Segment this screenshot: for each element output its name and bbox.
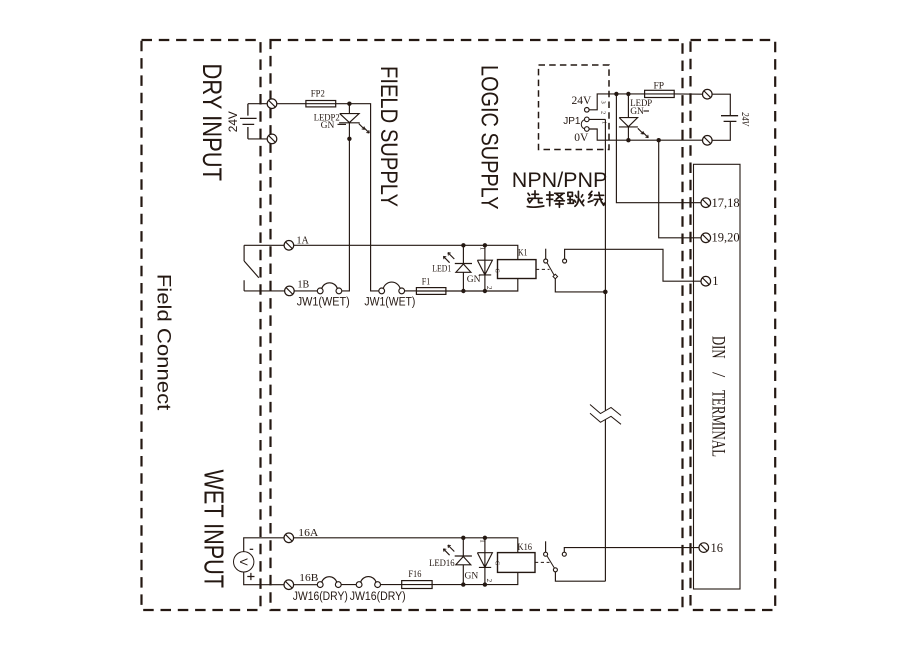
wire: contact to terminal 1 (565, 249, 701, 281)
svg-text:24V: 24V (572, 95, 593, 107)
wire: 0V line to terminal 19,20 (659, 140, 701, 238)
LED LED16 (455, 538, 472, 585)
DIN terminal block box (694, 164, 741, 589)
node: LED1 junctions (461, 243, 465, 247)
protection diode D16 (477, 538, 492, 585)
relay contact K1 (545, 249, 547, 259)
wire: cap to lower terminal (712, 121, 730, 140)
switch dry input (244, 245, 259, 291)
hanzi xian (588, 191, 605, 205)
node: dry minus junction (347, 137, 351, 141)
svg-text:F1: F1 (422, 278, 431, 288)
terminal screw top-left lower (267, 134, 277, 144)
wire: LEDP2 cathode down to JW1 row (342, 123, 350, 291)
terminal screw 1 (701, 276, 711, 286)
terminal screw logic supply upper (703, 89, 713, 99)
LED LED1 (455, 245, 472, 291)
svg-text:3: 3 (600, 101, 607, 104)
svg-text:WET INPUT: WET INPUT (199, 470, 230, 589)
fuse F16 (402, 581, 432, 589)
svg-text:TERMINAL: TERMINAL (707, 390, 728, 457)
svg-text:DIN: DIN (707, 336, 728, 359)
voltage source wet input (244, 538, 284, 585)
svg-text:NPN/PNP: NPN/PNP (512, 168, 608, 192)
svg-text:JW16(DRY): JW16(DRY) (350, 589, 406, 603)
svg-text:F16: F16 (408, 570, 421, 580)
jumper JW16 first (317, 582, 341, 588)
terminal screw 16A (284, 533, 294, 543)
wire: 16A row (294, 538, 518, 553)
jumper JW1 first (317, 288, 341, 294)
jumper header JP1 pins (585, 108, 590, 132)
battery 24V logic (721, 116, 738, 122)
wire: 1B row left (244, 290, 317, 292)
wire: 24V line to terminal 17,18 (616, 94, 701, 203)
battery 24V dry input (240, 104, 257, 139)
terminal screw top-left upper (267, 99, 277, 109)
svg-text:GN: GN (321, 121, 335, 131)
fuse FP2 (306, 101, 336, 107)
wire: terminal to cap 24V (712, 94, 730, 116)
svg-text:1: 1 (601, 121, 608, 124)
hanzi ze (547, 192, 565, 208)
LED LEDP2 (339, 104, 360, 123)
LEDP emission arrows (638, 128, 649, 137)
terminal screw 17,18 (701, 198, 711, 208)
svg-text:1: 1 (479, 539, 487, 543)
node: 24V line junctions (614, 92, 618, 96)
svg-text:1B: 1B (298, 279, 310, 290)
jumper JW16 second (356, 582, 380, 588)
LEDP2 emission arrows (359, 124, 370, 133)
jumper JW1 second (379, 288, 405, 294)
wire: JP1 pin3 to 24V line (589, 94, 645, 110)
svg-text:DRY INPUT: DRY INPUT (197, 64, 227, 182)
terminal screw 1B (285, 286, 295, 296)
svg-text:24V: 24V (739, 112, 750, 127)
svg-text:GN: GN (465, 572, 479, 582)
svg-text:1: 1 (712, 274, 718, 288)
wire: JP1 pin1 to 0V line (589, 129, 702, 140)
relay coil K16 (498, 553, 536, 573)
svg-text:2: 2 (600, 111, 607, 114)
relay coil K1 (498, 260, 537, 279)
wire: 16B to jumper (294, 584, 318, 586)
hanzi tiao (568, 191, 584, 206)
svg-text:16: 16 (711, 541, 724, 555)
svg-text:GN: GN (630, 107, 644, 117)
wire: F1 to K1 bottom stub (446, 279, 518, 292)
svg-text:FP: FP (654, 82, 665, 92)
svg-text:G: G (494, 269, 500, 274)
LED1 emission arrows (443, 253, 454, 263)
svg-text:Field Connect: Field Connect (152, 274, 174, 411)
svg-text:LED16: LED16 (429, 559, 455, 569)
plus mark (247, 573, 254, 580)
node: LEDP2 anode junction (347, 102, 351, 106)
frame: right terminal dashed border (691, 40, 776, 610)
relay contact K16 (545, 541, 547, 552)
svg-text:2: 2 (485, 579, 493, 583)
label leader GN right (644, 110, 650, 112)
logic rail vertical upper (604, 119, 606, 410)
node: rail junction K1 (603, 290, 608, 295)
svg-text:16B: 16B (299, 573, 318, 584)
svg-text:1: 1 (479, 247, 487, 251)
wire: FP2 to corner, down to JW1 row (336, 104, 379, 291)
wire: jumpers to F16 (341, 584, 402, 586)
relay contact K16 output (562, 552, 566, 556)
wire: contact to logic rail bottom (555, 572, 605, 581)
wire: contact to logic rail (555, 279, 605, 292)
svg-text:GN: GN (467, 275, 481, 285)
LED16 emission arrows (443, 545, 454, 555)
wire: dry - to terminal (248, 138, 267, 140)
protection diode D1 (477, 245, 492, 291)
svg-text:LOGIC SUPPLY: LOGIC SUPPLY (475, 65, 502, 210)
label leader GN left (338, 123, 347, 125)
fuse FP (645, 90, 675, 97)
svg-text:K1: K1 (518, 249, 528, 259)
svg-text:2: 2 (485, 286, 493, 290)
node: 0V line junctions (626, 138, 630, 142)
minus mark (250, 548, 254, 550)
terminal screw 16 (699, 543, 709, 553)
wire: 1A row (244, 245, 518, 259)
wire: dry + to terminal (248, 103, 267, 105)
LED LEDP (619, 94, 638, 140)
node: LED16 junctions (461, 536, 465, 540)
svg-text:24V: 24V (228, 111, 240, 132)
svg-text:G: G (494, 561, 500, 566)
wire: JP1 pin2 to logic rail (589, 118, 605, 120)
dashed actuator link K1 (536, 268, 550, 270)
svg-text:LED1: LED1 (432, 264, 451, 274)
svg-text:JW1(WET): JW1(WET) (364, 295, 415, 309)
terminal screw 19,20 (701, 233, 711, 243)
svg-text:1A: 1A (297, 235, 310, 246)
wire: F16 to K16 bottom stub (432, 572, 518, 584)
svg-text:FP2: FP2 (311, 90, 325, 100)
svg-text:V: V (237, 558, 249, 566)
label: chinese select jumper text (527, 191, 605, 208)
circuit break squiggles (590, 405, 621, 425)
wire: terminal to FP2 (277, 103, 306, 105)
wire: jumper2 to F1 (405, 290, 417, 292)
wire: contact to terminal 16 (564, 548, 699, 553)
terminal screw logic supply lower (703, 136, 713, 146)
svg-text:JW16(DRY): JW16(DRY) (293, 589, 348, 603)
frame: middle supply dashed border (271, 40, 683, 610)
jumper select dashed box JP1 (539, 65, 610, 150)
fuse F1 (416, 288, 446, 295)
terminal screw 1A (284, 241, 294, 251)
hanzi xuan (527, 191, 544, 207)
svg-text:JW1(WET): JW1(WET) (297, 295, 350, 309)
wire: FP to terminal (674, 93, 702, 95)
svg-text:K16: K16 (518, 543, 533, 553)
svg-text:/: / (707, 372, 728, 378)
terminal screw 16B (284, 580, 294, 590)
svg-text:FIELD SUPPLY: FIELD SUPPLY (375, 66, 402, 207)
dashed actuator link K16 (535, 561, 550, 563)
frame: Field Connect dashed border (142, 40, 261, 610)
svg-text:16A: 16A (298, 528, 319, 539)
relay contact K1 output (563, 259, 567, 263)
jumper shunt arc JP1 1-2 (581, 120, 584, 129)
svg-text:0V: 0V (574, 132, 589, 144)
logic rail vertical lower (604, 420, 606, 582)
svg-text:JP1: JP1 (563, 116, 581, 127)
svg-text:19,20: 19,20 (712, 231, 740, 245)
svg-text:17,18: 17,18 (712, 196, 740, 210)
